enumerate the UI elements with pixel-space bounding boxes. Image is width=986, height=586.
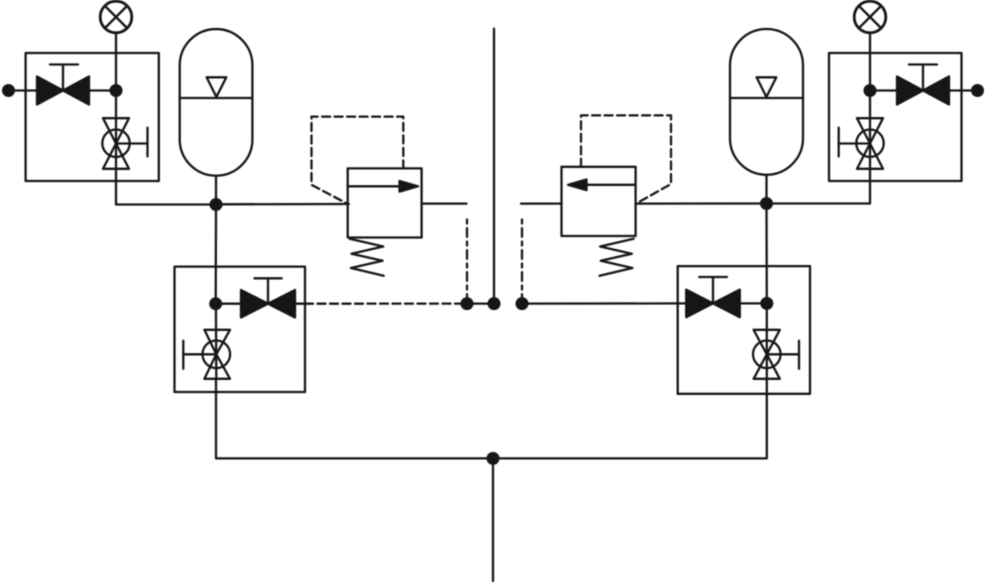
wire node G down to throttle T4 (766, 303, 768, 378)
port dot P1 (left external) (2, 84, 15, 97)
pilot dashed line of RV1 (312, 117, 404, 204)
dashed wire down to node D1 (466, 220, 468, 304)
wire V2 to box edge (295, 303, 305, 305)
wire V3 to node E (870, 89, 897, 91)
spring of RV1 (350, 239, 384, 276)
wire node H down (drain) (492, 458, 494, 581)
wire node B to relief valve RV1 input (216, 203, 349, 206)
wire T1 down and right to node B (116, 169, 216, 205)
wire node C down to throttle T2 (215, 304, 218, 379)
wire node F to relief valve RV2 input (636, 202, 767, 204)
shutoff valve V4 (filled bowtie with T handle) (686, 277, 740, 317)
dashed wire box to node D1 (305, 302, 461, 304)
wire T2 down to bottom rail (216, 379, 493, 459)
wire node E to throttle T3 (869, 91, 871, 169)
gauge G2 (circle with X, top right) (854, 1, 886, 33)
wire P1 to valve V1 (9, 89, 38, 91)
spring of RV2 (600, 239, 634, 276)
wire node D1 to node D2 (467, 302, 494, 304)
wire RV2 output to corner (521, 202, 562, 204)
wire node D3 to valve V4 (522, 302, 686, 305)
enclosure box top-right (829, 53, 962, 181)
center supply line (493, 29, 495, 304)
wire node F down to node G (765, 204, 768, 304)
throttle valve T2 (bowtie with circle, handle left) (183, 330, 230, 379)
wire node A to throttle T1 (115, 91, 117, 169)
node B junction dot (210, 198, 223, 211)
relief valve RV1 (box with right arrow) (348, 168, 422, 237)
enclosure box bottom-left (175, 267, 306, 392)
accumulator ACC1 (capsule with gas triangle) (180, 29, 253, 176)
wire gauge G2 to node E (869, 33, 871, 91)
pilot dashed line of RV2 (581, 115, 671, 203)
node G junction dot (760, 297, 773, 310)
wire P2 to valve V3 (949, 89, 978, 91)
throttle valve T1 (bowtie with circle, handle right) (102, 118, 147, 169)
wire gauge G1 to node A (115, 33, 117, 91)
node D2 junction dot (488, 297, 501, 310)
node A junction dot (110, 84, 123, 97)
node F junction dot (760, 197, 773, 210)
port dot P2 (right external) (971, 84, 984, 97)
dashed wire down to node D3 (521, 220, 523, 304)
shutoff valve V2 (filled bowtie with T handle) (241, 278, 295, 317)
wire ACC1 to node B (215, 176, 217, 205)
wire node B down to node C (215, 205, 218, 304)
wire V1 to node A (89, 89, 116, 91)
accumulator ACC2 (capsule with gas triangle) (730, 29, 803, 175)
relief valve RV2 (box with left arrow) (562, 167, 636, 236)
shutoff valve V3 (filled bowtie with T handle) (897, 65, 949, 105)
wire T3 down and left to node F (767, 169, 871, 204)
node E junction dot (864, 84, 877, 97)
throttle valve T4 (bowtie with circle, handle right) (753, 330, 799, 379)
gauge G1 (circle with X, top left) (100, 1, 132, 33)
shutoff valve V1 (filled bowtie with T handle) (37, 65, 89, 105)
enclosure box top-left (26, 53, 159, 181)
node C junction dot (209, 297, 222, 310)
enclosure box bottom-right (678, 266, 810, 394)
wire RV1 output to corner (422, 202, 467, 204)
throttle valve T3 (bowtie with circle, handle left) (839, 118, 884, 169)
wire V4 to node G (740, 302, 767, 304)
node H junction dot (bottom rail) (487, 452, 500, 465)
node D1 junction dot (461, 297, 474, 310)
wire node C to valve V2 (216, 303, 241, 305)
wire ACC2 to node F (765, 175, 767, 204)
node D3 junction dot (516, 297, 529, 310)
wire T4 down to bottom rail (493, 379, 767, 459)
